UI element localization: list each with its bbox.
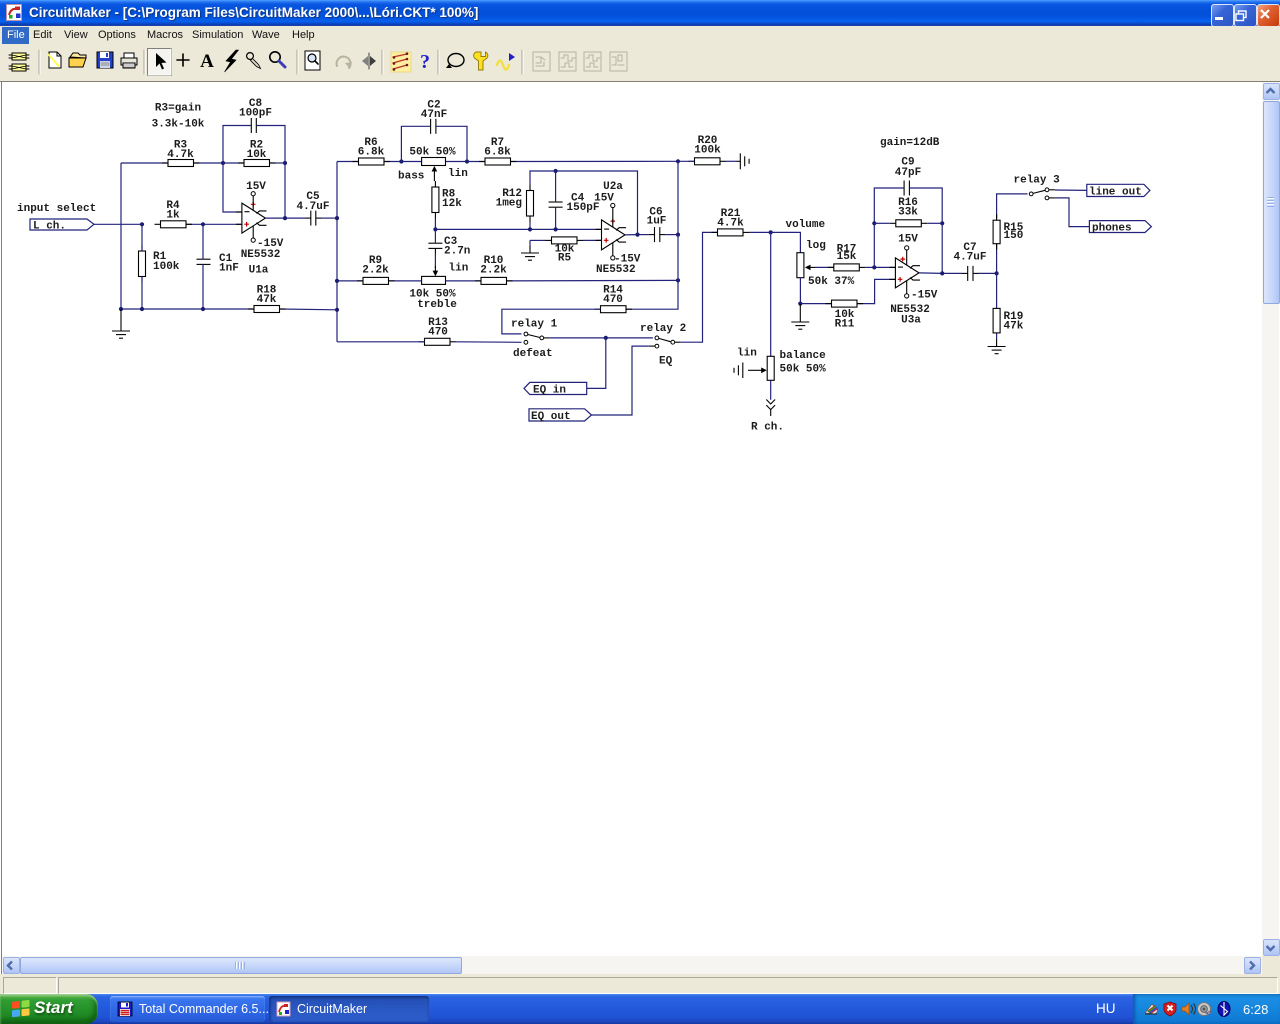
wire R5 to ground and plus input bbox=[530, 240, 602, 246]
svg-text:EQ in: EQ in bbox=[533, 385, 566, 397]
wire R16 row bbox=[874, 222, 942, 224]
ground symbol left bbox=[112, 309, 130, 338]
resistor R2 bbox=[238, 140, 276, 167]
resistor R12 bbox=[496, 185, 534, 223]
svg-text:15V: 15V bbox=[246, 181, 266, 193]
resistor R19 bbox=[993, 308, 1024, 333]
wire EQ in riser bbox=[587, 338, 606, 389]
svg-text:volume: volume bbox=[786, 219, 826, 231]
horizontal scrollbar bbox=[2, 956, 1262, 974]
zoom tool bbox=[270, 52, 285, 67]
svg-text:R11: R11 bbox=[835, 319, 855, 331]
svg-text:15k: 15k bbox=[837, 251, 857, 263]
zoom page icon bbox=[305, 51, 320, 70]
status bar bbox=[0, 974, 1280, 994]
resistor R3 bbox=[162, 140, 200, 167]
junction relay1/EQin bbox=[604, 336, 608, 340]
relay 1 switch bbox=[511, 319, 558, 361]
note gain=12dB bbox=[880, 137, 940, 149]
svg-text:470: 470 bbox=[603, 294, 623, 306]
junction R4/R1 node bbox=[140, 222, 144, 226]
resistor R14 bbox=[595, 285, 633, 313]
ground symbol rotated right of R20 bbox=[737, 153, 750, 169]
potentiometer treble 10k bbox=[409, 263, 468, 312]
resistor R11 bbox=[826, 300, 864, 330]
wire left ground rail (R3 left to ground) bbox=[120, 163, 122, 309]
svg-text:47nF: 47nF bbox=[421, 109, 447, 121]
wire R12 feedback bbox=[530, 171, 556, 229]
svg-text:log: log bbox=[806, 240, 826, 252]
wire R4 to C1 node bbox=[187, 223, 204, 225]
svg-text:47k: 47k bbox=[1004, 321, 1024, 333]
junction C6 right rail bbox=[676, 233, 680, 237]
junction ground rail C1 bbox=[201, 307, 205, 311]
waveform icon bbox=[497, 53, 515, 70]
lightning tool bbox=[225, 50, 239, 72]
port connector EQ in bbox=[524, 382, 587, 396]
wire relay3 to line out bbox=[1055, 189, 1087, 191]
wrench icon bbox=[474, 52, 488, 70]
wire C8 loop bbox=[223, 126, 285, 164]
svg-text:U3a: U3a bbox=[901, 315, 921, 327]
wire volume wiper to R17 bbox=[815, 266, 834, 268]
wire C1 node to U1a plus input bbox=[203, 223, 242, 225]
relay 2 switch bbox=[640, 323, 686, 368]
junction C4 bottom bbox=[554, 227, 558, 231]
svg-text:R3=gain: R3=gain bbox=[155, 103, 201, 115]
wire R17 to U3a minus bbox=[865, 266, 895, 268]
capacitor C5 bbox=[296, 191, 329, 226]
svg-text:relay 1: relay 1 bbox=[511, 319, 558, 331]
svg-text:bass: bass bbox=[398, 171, 424, 183]
wire U3a feedback left riser bbox=[874, 188, 903, 267]
resistor R4 bbox=[155, 200, 193, 228]
wire U3a output to C7 bbox=[919, 272, 997, 275]
resistor R6 bbox=[353, 137, 391, 165]
wire balance bottom to off-page bbox=[770, 380, 772, 400]
port connector phones bbox=[1089, 221, 1151, 235]
wire output right rail bbox=[626, 161, 678, 309]
arrow tool selected bbox=[148, 49, 172, 76]
junction R16 left bbox=[872, 221, 876, 225]
taskbar bbox=[0, 994, 1280, 1024]
wire C1 connections bbox=[202, 224, 204, 309]
junction R11/ground node bbox=[798, 302, 802, 306]
op-amp U2a bbox=[594, 181, 641, 276]
wire R1 connections bbox=[141, 224, 143, 309]
scope icon disabled 2 bbox=[559, 52, 576, 71]
wire C4 connections bbox=[555, 171, 557, 229]
potentiometer bass 50k bbox=[398, 147, 468, 183]
wire volume pot bottom to R11 node bbox=[799, 278, 801, 304]
wire node to volume pot top bbox=[771, 232, 801, 252]
svg-text:3.3k-10k: 3.3k-10k bbox=[152, 119, 205, 131]
resistor R7 bbox=[479, 137, 517, 165]
ground symbol U2a bbox=[521, 246, 539, 260]
svg-text:50k 37%: 50k 37% bbox=[808, 276, 855, 288]
save floppy icon bbox=[97, 52, 113, 68]
svg-text:U1a: U1a bbox=[249, 265, 269, 277]
junction rail top R20 bbox=[676, 159, 680, 163]
ati tray icon bbox=[1145, 1004, 1158, 1014]
junction R16 right bbox=[940, 221, 944, 225]
svg-text:4.7k: 4.7k bbox=[717, 218, 744, 230]
junction left rail R9 bbox=[335, 279, 339, 283]
wire balance riser bbox=[770, 232, 772, 356]
svg-text:6.8k: 6.8k bbox=[484, 147, 511, 159]
junction U3a output bbox=[940, 271, 944, 275]
svg-text:15V: 15V bbox=[898, 234, 918, 246]
wire R13 row bbox=[337, 341, 522, 344]
wire U2a minus row bbox=[435, 228, 601, 230]
resistor R21 bbox=[712, 208, 750, 236]
relay 3 switch bbox=[1014, 175, 1061, 200]
port connector EQ out bbox=[529, 409, 592, 423]
soundmax tray icon bbox=[1198, 1003, 1212, 1016]
resistor R5 bbox=[546, 237, 584, 265]
wire U1a output to C5 bbox=[265, 217, 337, 219]
ground symbol below R19 bbox=[988, 339, 1006, 354]
svg-text:balance: balance bbox=[780, 350, 827, 362]
svg-text:100k: 100k bbox=[153, 261, 180, 273]
svg-text:100k: 100k bbox=[694, 145, 721, 157]
junction R3/R2 feedback node bbox=[221, 161, 225, 165]
wire R20 to ground bbox=[678, 160, 737, 162]
digital options icon bbox=[391, 52, 411, 72]
junction C1 node bbox=[201, 222, 205, 226]
ground symbol rotated left of balance bbox=[734, 363, 743, 379]
wire R2 right down to output bbox=[284, 163, 286, 218]
svg-text:10k: 10k bbox=[247, 149, 267, 161]
resistor R18 bbox=[248, 285, 286, 313]
mirror icon bbox=[362, 53, 376, 69]
toolbar separators bbox=[38, 50, 40, 74]
capacitor C9 bbox=[895, 157, 921, 196]
svg-text:treble: treble bbox=[417, 299, 457, 311]
resistor R17 bbox=[828, 244, 866, 271]
svg-text:-15V: -15V bbox=[911, 290, 938, 302]
wire R8 bottom to minus node bbox=[434, 219, 436, 230]
scope icon disabled 1 bbox=[533, 52, 550, 71]
ground symbol below volume bbox=[791, 304, 809, 330]
resistor R10 bbox=[475, 255, 513, 284]
svg-text:R5: R5 bbox=[558, 253, 572, 265]
wire U2a output to C6 bbox=[625, 234, 678, 236]
shield tray icon bbox=[1164, 1002, 1176, 1016]
vertical scrollbar bbox=[1262, 82, 1279, 956]
svg-text:relay 3: relay 3 bbox=[1014, 175, 1061, 187]
bluetooth tray icon bbox=[1218, 1002, 1230, 1017]
resistor R13 bbox=[419, 317, 457, 345]
junction left rail C5 bbox=[335, 216, 339, 220]
wire tone-stage left rail bbox=[336, 162, 338, 342]
node input-select header text bbox=[17, 203, 96, 215]
svg-text:50k 50%: 50k 50% bbox=[409, 147, 456, 159]
wire output riser down bbox=[941, 223, 943, 273]
loop icon bbox=[446, 54, 464, 69]
svg-text:33k: 33k bbox=[898, 207, 918, 219]
wire EQ out riser bbox=[592, 346, 649, 415]
potentiometer volume 50k log bbox=[786, 219, 855, 288]
wire R21 to volume node bbox=[749, 231, 771, 233]
wire feedback top row to output bbox=[556, 171, 638, 235]
wire C3 to treble wiper bbox=[434, 229, 436, 268]
svg-text:6.8k: 6.8k bbox=[358, 147, 385, 159]
svg-text:50k 50%: 50k 50% bbox=[780, 364, 827, 376]
off-page connector R ch. bbox=[751, 400, 784, 434]
svg-text:1meg: 1meg bbox=[496, 198, 522, 210]
resistor R1 bbox=[139, 245, 180, 283]
svg-text:input select: input select bbox=[17, 203, 96, 215]
wire bass row bbox=[337, 160, 678, 162]
open folder icon bbox=[69, 53, 86, 67]
wire C2 loop bbox=[401, 126, 467, 161]
capacitor C2 bbox=[421, 100, 447, 134]
print icon bbox=[121, 53, 137, 68]
junction R12 node bbox=[528, 227, 532, 231]
resistor R20 bbox=[689, 135, 727, 165]
svg-text:470: 470 bbox=[428, 327, 448, 339]
junction volume/balance node bbox=[769, 230, 773, 234]
probe tool bbox=[247, 53, 261, 69]
junction ground rail R1 bbox=[140, 307, 144, 311]
plus tool bbox=[177, 54, 189, 66]
svg-text:R ch.: R ch. bbox=[751, 422, 784, 434]
svg-text:defeat: defeat bbox=[513, 348, 553, 360]
port connector line out bbox=[1087, 184, 1150, 198]
junction U3a minus node bbox=[872, 265, 876, 269]
scope icon disabled 4 bbox=[610, 52, 627, 71]
op-amp U3a bbox=[890, 234, 938, 327]
svg-text:15V: 15V bbox=[594, 193, 614, 205]
wire R15 riser to relay 3 bbox=[997, 194, 1028, 274]
svg-text:4.7uF: 4.7uF bbox=[953, 252, 986, 264]
svg-text:150: 150 bbox=[1004, 230, 1024, 242]
capacitor C3 bbox=[428, 236, 470, 258]
svg-text:4.7k: 4.7k bbox=[167, 149, 194, 161]
junction R8/C3 node bbox=[433, 227, 437, 231]
wire top row R3/R2 bbox=[121, 162, 285, 164]
speaker orange tray icon bbox=[1182, 1003, 1196, 1015]
parts browser icon bbox=[9, 53, 29, 71]
wire feedback node to U1a minus input bbox=[223, 163, 242, 212]
svg-text:4.7uF: 4.7uF bbox=[296, 201, 329, 213]
svg-text:12k: 12k bbox=[442, 198, 462, 210]
junction U1a output node bbox=[283, 216, 287, 220]
svg-text:100pF: 100pF bbox=[239, 108, 272, 120]
wire relay3 to phones bbox=[1055, 198, 1090, 227]
wire bottom ground rail bbox=[121, 308, 337, 311]
svg-text:lin: lin bbox=[449, 263, 469, 275]
svg-text:phones: phones bbox=[1092, 223, 1132, 235]
svg-text:gain=12dB: gain=12dB bbox=[880, 137, 940, 149]
scope icon disabled 3 bbox=[584, 52, 601, 71]
svg-text:U2a: U2a bbox=[603, 181, 623, 193]
wire R19 riser bbox=[996, 273, 998, 339]
svg-text:47pF: 47pF bbox=[895, 167, 921, 179]
help icon bbox=[420, 51, 430, 73]
svg-text:lin: lin bbox=[448, 168, 468, 180]
junction C7 right bbox=[995, 271, 999, 275]
capacitor C8 bbox=[239, 98, 272, 133]
junction R2/C8 output top node bbox=[283, 161, 287, 165]
svg-text:1k: 1k bbox=[166, 210, 180, 222]
note R3=gain 3.3k-10k bbox=[152, 103, 205, 131]
svg-text:relay 2: relay 2 bbox=[640, 323, 686, 335]
op-amp U1a bbox=[236, 181, 284, 277]
capacitor C1 bbox=[197, 253, 239, 275]
junction left rail R18 bbox=[335, 308, 339, 312]
wire input connector to R4 node bbox=[94, 223, 142, 225]
capacitor C6 bbox=[647, 207, 667, 243]
svg-text:1uF: 1uF bbox=[647, 216, 667, 228]
resistor R15 bbox=[993, 214, 1024, 250]
junction rail R10 bbox=[676, 278, 680, 282]
wire R11 row bbox=[800, 279, 895, 303]
potentiometer balance 50k bbox=[737, 348, 826, 381]
junction bass right C2 bbox=[465, 159, 469, 163]
wire relay1 common to relay2 bbox=[550, 337, 653, 339]
svg-text:line out: line out bbox=[1089, 187, 1142, 199]
svg-text:EQ: EQ bbox=[659, 356, 673, 368]
svg-text:2.7n: 2.7n bbox=[444, 246, 470, 258]
svg-text:L ch.: L ch. bbox=[33, 221, 66, 233]
junction U2a output bbox=[635, 233, 639, 237]
svg-text:lin: lin bbox=[737, 348, 757, 360]
resistor R16 bbox=[890, 197, 928, 227]
capacitor C4 bbox=[549, 193, 600, 215]
svg-text:47k: 47k bbox=[257, 294, 277, 306]
wire treble row bbox=[337, 279, 678, 282]
text tool A bbox=[200, 51, 214, 72]
rotate icon disabled bbox=[337, 57, 352, 69]
svg-text:NE5532: NE5532 bbox=[241, 249, 281, 261]
wire relay2 common up to R21 bbox=[681, 232, 718, 342]
wire R14 left down to relay 1 bbox=[502, 309, 601, 334]
capacitor C7 bbox=[953, 242, 986, 281]
svg-text:2.2k: 2.2k bbox=[362, 265, 389, 277]
junction ground rail at 121 bbox=[119, 307, 123, 311]
svg-text:1nF: 1nF bbox=[219, 263, 239, 275]
port connector L ch. bbox=[30, 219, 94, 233]
junction bass left C2 bbox=[399, 159, 403, 163]
resistor R8 bbox=[432, 181, 462, 219]
junction C4 top bbox=[554, 169, 558, 173]
svg-text:NE5532: NE5532 bbox=[596, 264, 636, 276]
svg-text:EQ out: EQ out bbox=[531, 411, 571, 423]
svg-text:2.2k: 2.2k bbox=[480, 265, 507, 277]
new file icon bbox=[47, 52, 61, 68]
wire C9 right to output riser bbox=[909, 188, 942, 223]
resistor R9 bbox=[357, 255, 395, 284]
